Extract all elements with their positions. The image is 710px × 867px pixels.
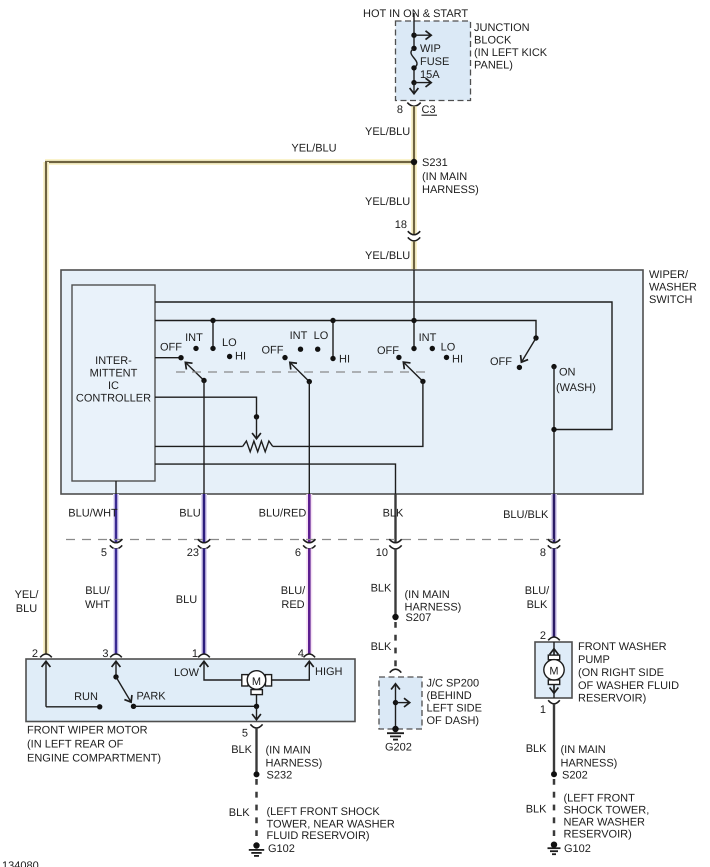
svg-text:YEL/BLU: YEL/BLU: [365, 196, 410, 208]
svg-text:INT: INT: [290, 330, 308, 342]
connector pin 10 (BLK): [376, 539, 402, 559]
wire: pin 1 arrow and feed to motor low brush: [204, 662, 242, 681]
wire: bus drop to S2 HI: [332, 321, 334, 359]
contact wash ON: [551, 364, 556, 369]
svg-text:BLU: BLU: [179, 508, 200, 520]
svg-text:(BEHIND: (BEHIND: [427, 690, 472, 702]
node: feed junction bottom: [411, 80, 416, 85]
svg-text:C3: C3: [422, 104, 436, 116]
svg-text:WIPER/: WIPER/: [649, 269, 689, 281]
node: bus / YEL-BLU junction: [411, 318, 416, 323]
svg-text:S207: S207: [406, 612, 432, 624]
node: wiper tap: [254, 414, 259, 419]
contact RUN: [97, 704, 102, 709]
svg-text:J/C SP200: J/C SP200: [427, 678, 480, 690]
contact S1 HI: [227, 354, 232, 359]
wire YEL/BLU horizontal branch to left: [45, 159, 414, 165]
motor M2 washer pump: [544, 655, 564, 684]
wire: IC to BLK output: [155, 464, 396, 494]
connector C3 pin 8: [397, 103, 437, 116]
node: wash output junction: [551, 427, 556, 432]
svg-text:OFF: OFF: [160, 342, 182, 354]
switch lever WASH: [522, 338, 537, 362]
svg-text:G102: G102: [268, 843, 295, 855]
node: S3 lever pivot: [420, 379, 425, 384]
svg-text:15A: 15A: [420, 69, 440, 81]
ground G202: [385, 733, 412, 753]
svg-text:HI: HI: [339, 354, 350, 366]
svg-text:8: 8: [540, 547, 546, 559]
svg-text:MITTENT: MITTENT: [90, 368, 138, 380]
connector motor pin 1: [198, 654, 210, 657]
wire BLK motor to S232: [255, 728, 257, 774]
ground G102 right: [548, 842, 591, 855]
svg-text:YEL/BLU: YEL/BLU: [365, 126, 410, 138]
svg-text:BLOCK: BLOCK: [474, 35, 512, 47]
svg-text:YEL/BLU: YEL/BLU: [291, 143, 336, 155]
svg-text:18: 18: [395, 219, 407, 231]
svg-text:S202: S202: [562, 770, 588, 782]
svg-text:BLU/: BLU/: [281, 585, 306, 597]
wire YEL/BLU from S231 to connector 18: [411, 162, 417, 234]
svg-text:TOWER, NEAR WASHER: TOWER, NEAR WASHER: [267, 818, 395, 830]
wire: common down arrow exit: [256, 706, 258, 719]
svg-text:FRONT WIPER MOTOR: FRONT WIPER MOTOR: [27, 725, 148, 737]
front wiper motor box: [26, 659, 355, 765]
wire: pump internal down arrow: [553, 685, 555, 694]
dashed connector row line: [66, 539, 554, 541]
svg-text:1: 1: [540, 704, 546, 716]
connector pump pin 1: [548, 700, 560, 704]
svg-text:(LEFT FRONT SHOCK: (LEFT FRONT SHOCK: [267, 806, 381, 818]
contact S2 OFF: [282, 355, 287, 360]
wire: IC to S1 OFF contact: [155, 357, 181, 359]
svg-text:HIGH: HIGH: [315, 666, 343, 678]
svg-text:BLU/WHT: BLU/WHT: [68, 508, 118, 520]
svg-text:LO: LO: [222, 337, 237, 349]
wire BLU/WHT connector to motor pin 3: [113, 549, 119, 654]
wire: IC to resistor left: [155, 445, 243, 447]
svg-text:G202: G202: [385, 742, 412, 754]
svg-text:BLK: BLK: [371, 641, 392, 653]
svg-text:134080: 134080: [2, 860, 39, 867]
svg-text:BLK: BLK: [383, 508, 404, 520]
wire: park contact to motor common: [134, 705, 257, 707]
svg-text:IC: IC: [108, 380, 119, 392]
connector inline 18: [408, 231, 420, 241]
svg-text:HOT IN ON & START: HOT IN ON & START: [363, 8, 468, 20]
wire: switch common bus: [155, 321, 536, 339]
svg-text:(LEFT FRONT: (LEFT FRONT: [564, 793, 636, 805]
svg-text:RESERVOIR): RESERVOIR): [564, 829, 632, 841]
svg-text:FLUID RESERVOIR): FLUID RESERVOIR): [267, 830, 370, 842]
wire BLU switch to connector: [201, 494, 207, 542]
node: bus drop S1: [210, 318, 215, 323]
wire: pump internal feed: [553, 642, 555, 656]
arrow: wiper onto resistor: [256, 417, 258, 439]
svg-text:CONTROLLER: CONTROLLER: [76, 393, 151, 405]
wire: fuse output down arrow: [413, 83, 415, 94]
wire BLK dashed S232 to G102: [255, 779, 258, 843]
svg-text:(IN MAIN: (IN MAIN: [422, 171, 467, 183]
wire: IC to BLU/WHT output: [115, 481, 117, 494]
svg-text:(IN MAIN: (IN MAIN: [266, 745, 311, 757]
contact PARK: [131, 704, 136, 709]
contact S1 INT: [193, 346, 198, 351]
contact S2 LO: [315, 347, 320, 352]
svg-text:HI: HI: [452, 354, 463, 366]
svg-text:G102: G102: [564, 843, 591, 855]
svg-text:5: 5: [242, 728, 248, 740]
splice S207: [392, 614, 398, 620]
svg-text:5: 5: [101, 547, 107, 559]
wire: IC controller to wash ON contact (top loop): [155, 302, 612, 430]
splice S202: [551, 771, 557, 777]
svg-text:BLU/: BLU/: [85, 585, 110, 597]
svg-text:LOW: LOW: [174, 667, 200, 679]
svg-text:PARK: PARK: [137, 691, 167, 703]
front washer pump box: [535, 641, 679, 705]
svg-text:JUNCTION: JUNCTION: [474, 22, 530, 34]
wire BLK connector to S207: [394, 549, 396, 618]
node: S2 lever pivot: [307, 379, 312, 384]
contact wash OFF: [517, 365, 522, 370]
wire: pin 3 arrow: [115, 662, 117, 677]
svg-text:BLK: BLK: [526, 804, 547, 816]
node: bus drop S2: [330, 318, 335, 323]
svg-text:BLK: BLK: [527, 599, 548, 611]
wire: SP200 internal up arrow: [395, 684, 397, 729]
svg-text:BLU/: BLU/: [525, 585, 550, 597]
svg-text:LEFT SIDE: LEFT SIDE: [427, 703, 482, 715]
svg-text:23: 23: [187, 547, 199, 559]
motor M1 wiper motor: [242, 671, 272, 695]
wire: S1 lever to BLU output: [203, 381, 205, 495]
wire: wash ON contact down to BLU/BLK output: [553, 367, 555, 494]
svg-text:BLU/BLK: BLU/BLK: [503, 509, 549, 521]
svg-text:RED: RED: [281, 599, 304, 611]
resistor (intermittent delay): [243, 441, 273, 452]
svg-text:WHT: WHT: [85, 599, 110, 611]
connector motor pin 5: [250, 724, 262, 728]
svg-text:WASHER: WASHER: [649, 282, 697, 294]
wire BLK switch to connector: [394, 494, 396, 542]
connector motor pin 2: [40, 654, 52, 657]
splice S231: [411, 157, 479, 196]
fuse WIP FUSE 15A: [411, 43, 449, 81]
junction block (in left kick panel): [396, 21, 548, 101]
svg-text:(IN LEFT KICK: (IN LEFT KICK: [474, 47, 548, 59]
svg-text:FUSE: FUSE: [420, 56, 449, 68]
svg-text:BLU: BLU: [16, 603, 37, 615]
node: SP200 tap: [393, 700, 398, 705]
svg-text:INT: INT: [185, 332, 203, 344]
svg-text:YEL/: YEL/: [15, 589, 40, 601]
svg-text:(ON RIGHT SIDE: (ON RIGHT SIDE: [578, 667, 664, 679]
splice S232: [254, 771, 260, 777]
wire: RUN feed horizontal: [46, 706, 100, 708]
connector motor pin 3: [110, 654, 122, 657]
connector at J/C SP200: [390, 669, 402, 672]
contact S3 OFF: [396, 355, 401, 360]
svg-text:RESERVOIR): RESERVOIR): [578, 693, 646, 705]
wire: branch arrow lower: [414, 82, 431, 84]
svg-text:INT: INT: [419, 332, 437, 344]
node: feed junction top: [411, 33, 416, 38]
wire: S2 lever to BLU/RED output: [308, 382, 310, 494]
svg-text:ENGINE COMPARTMENT): ENGINE COMPARTMENT): [27, 753, 161, 765]
svg-text:OFF: OFF: [377, 345, 399, 357]
wire BLU/WHT switch to connector: [113, 494, 119, 542]
svg-text:OF WASHER FLUID: OF WASHER FLUID: [578, 680, 679, 692]
svg-text:YEL/BLU: YEL/BLU: [365, 250, 410, 262]
wire YEL/BLU from C3 to S231: [411, 106, 417, 162]
node: S1 lever pivot: [201, 378, 206, 383]
wire: IC wiper tap: [155, 397, 257, 417]
wire YEL/BLU into switch box: [411, 241, 417, 270]
contact S1 LO: [210, 346, 215, 351]
wire: S3 lever to resistor: [273, 381, 423, 446]
wire: junction block feed vertical: [413, 13, 415, 48]
wire: SP200 branch arrow: [396, 702, 410, 704]
svg-text:OFF: OFF: [262, 345, 284, 357]
connector pin 23 (BLU): [187, 539, 210, 559]
svg-text:OF DASH): OF DASH): [427, 715, 480, 727]
svg-text:BLU: BLU: [176, 594, 197, 606]
wire YEL/BLU left vertical to wiper motor pin 2: [43, 162, 49, 654]
intermittent IC controller: [72, 285, 155, 481]
svg-text:2: 2: [540, 630, 546, 642]
node: SP200 ground node: [392, 726, 398, 732]
wire: pump internal up arrow: [553, 649, 555, 655]
svg-text:HI: HI: [235, 351, 246, 363]
dashed switch gang line: [176, 371, 427, 373]
svg-text:BLK: BLK: [231, 744, 252, 756]
wire: YEL/BLU drop inside box to S3 INT: [413, 270, 415, 349]
wire: pin 4 arrow and feed to motor high brush: [272, 662, 310, 681]
svg-text:NEAR WASHER: NEAR WASHER: [564, 817, 646, 829]
connector pin 6 (BLU/RED): [295, 539, 316, 559]
ground G102 left: [249, 842, 295, 856]
svg-text:8: 8: [397, 104, 403, 116]
svg-text:6: 6: [295, 547, 301, 559]
junction connector J/C SP200 box: [379, 677, 482, 729]
svg-text:M: M: [252, 676, 261, 688]
svg-text:(WASH): (WASH): [556, 382, 596, 394]
wire BLK dashed S207 to SP200: [394, 622, 397, 669]
svg-text:(IN MAIN: (IN MAIN: [561, 744, 606, 756]
switch lever PARK: [116, 677, 131, 702]
svg-text:INTER-: INTER-: [95, 355, 132, 367]
svg-text:OFF: OFF: [490, 356, 512, 368]
svg-text:HARNESS): HARNESS): [422, 184, 479, 196]
svg-text:10: 10: [376, 547, 388, 559]
contact S3 LO: [430, 346, 435, 351]
svg-text:S231: S231: [422, 157, 448, 169]
wire BLU/RED switch to connector: [306, 494, 312, 542]
connector motor pin 4: [304, 654, 316, 657]
svg-text:BLK: BLK: [371, 583, 392, 595]
svg-text:BLU/RED: BLU/RED: [259, 508, 307, 520]
svg-text:LO: LO: [441, 342, 456, 354]
svg-text:S232: S232: [267, 770, 293, 782]
wiper/washer switch box: [61, 269, 697, 494]
svg-text:LO: LO: [314, 330, 329, 342]
node: park lever pivot: [113, 674, 118, 679]
svg-text:M: M: [549, 666, 558, 678]
wire: motor to common junction: [256, 695, 258, 707]
svg-text:SHOCK TOWER,: SHOCK TOWER,: [564, 805, 650, 817]
wire: bus drop to S1 LO: [212, 321, 214, 349]
node: wash lever pivot on bus: [533, 335, 538, 340]
connector pin 5 (BLU/WHT): [101, 539, 122, 559]
svg-text:BLK: BLK: [526, 743, 547, 755]
svg-text:(IN MAIN: (IN MAIN: [405, 589, 450, 601]
svg-text:WIP: WIP: [420, 43, 441, 55]
wire BLU connector to motor pin 1: [201, 549, 207, 654]
wire BLU/BLK connector to pump pin 2: [551, 549, 557, 637]
svg-text:BLK: BLK: [229, 807, 250, 819]
svg-text:ON: ON: [559, 367, 576, 379]
contact S3 HI: [444, 355, 449, 360]
contact S1 OFF: [178, 355, 183, 360]
svg-text:PUMP: PUMP: [578, 654, 610, 666]
wire BLK dashed S202 to G102: [553, 779, 556, 842]
svg-text:HARNESS): HARNESS): [266, 758, 323, 770]
connector pump pin 2: [548, 637, 560, 640]
svg-text:RUN: RUN: [74, 691, 98, 703]
node: motor common junction: [254, 704, 259, 709]
contact S3 INT (fed by YEL/BLU drop): [411, 346, 416, 351]
contact S2 HI: [330, 356, 335, 361]
connector pin 8 (BLU/BLK): [540, 539, 560, 559]
svg-text:SWITCH: SWITCH: [649, 294, 692, 306]
svg-text:(IN LEFT REAR OF: (IN LEFT REAR OF: [27, 739, 124, 751]
wire BLK pump to S202: [553, 704, 555, 775]
svg-text:HARNESS): HARNESS): [561, 758, 618, 770]
contact S2 INT: [298, 347, 303, 352]
svg-text:PANEL): PANEL): [474, 60, 513, 72]
svg-text:FRONT WASHER: FRONT WASHER: [578, 641, 667, 653]
switch lever S2: [290, 363, 309, 382]
wire BLU/RED connector to motor pin 4: [306, 549, 312, 654]
wire: pin 2 arrow to RUN line: [45, 662, 47, 707]
wire: branch arrow upper: [414, 34, 431, 36]
switch lever S3: [404, 362, 423, 381]
switch lever S1: [186, 363, 205, 381]
wire BLU/BLK switch to connector: [551, 494, 557, 542]
